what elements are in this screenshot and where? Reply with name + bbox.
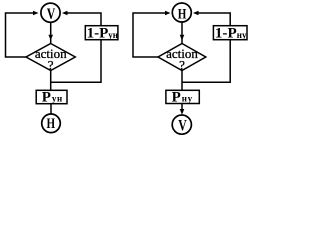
process box 1-Pun: [85, 26, 118, 40]
svg-text:H: H: [47, 116, 56, 132]
svg-text:1-P: 1-P: [87, 25, 109, 41]
wire P box bottom down toward circle V: [181, 104, 183, 113]
decision diamond action?: [158, 44, 206, 71]
svg-text:ну: ну: [182, 93, 193, 103]
wire from 1-P box top to circle H right side: [198, 13, 230, 26]
wire circle V down to diamond: [50, 22, 52, 44]
svg-text:?: ?: [48, 58, 54, 73]
decision diamond action?: [26, 44, 75, 71]
arrowhead into state circle H from right: [193, 11, 199, 16]
process box Pun: [36, 90, 67, 103]
wire junction below diamond right to 1-P box bottom: [182, 40, 230, 82]
wire feedback loop left: diamond left vertex up to circle V: [6, 13, 34, 57]
arrowhead into diamond top: [48, 35, 53, 41]
wire circle H down to diamond: [181, 22, 183, 44]
svg-text:P: P: [172, 89, 181, 105]
wire P box bottom to circle H: [50, 104, 52, 114]
svg-text:V: V: [178, 117, 187, 134]
state circle H (top): [172, 3, 191, 22]
state circle V (bottom): [172, 115, 191, 134]
wire junction below diamond right to 1-P box bottom: [51, 40, 101, 82]
process box 1-Pnu: [213, 26, 247, 40]
arrowhead into state circle V from right: [62, 11, 68, 16]
svg-text:1-P: 1-P: [215, 25, 237, 41]
process box Pnu: [166, 90, 199, 103]
arrowhead into bottom circle V: [180, 109, 185, 115]
wire diamond bottom down to P box: [181, 71, 183, 91]
svg-text:V: V: [47, 6, 56, 23]
svg-text:?: ?: [179, 58, 185, 73]
svg-text:ун: ун: [52, 93, 63, 103]
svg-text:ну: ну: [237, 30, 247, 40]
svg-text:P: P: [42, 89, 51, 105]
wire from 1-P box top to circle V right side: [67, 13, 101, 26]
state circle H (bottom): [42, 114, 61, 133]
svg-text:ун: ун: [108, 30, 118, 40]
wire feedback loop left: diamond left vertex up to circle H: [133, 13, 165, 57]
svg-text:H: H: [178, 7, 187, 23]
arrowhead into state circle V from left: [33, 11, 39, 16]
arrowhead into state circle H from left: [165, 11, 171, 16]
wire diamond bottom down to P box: [50, 71, 52, 91]
arrowhead into diamond top: [180, 35, 185, 41]
state circle V (top): [41, 3, 60, 22]
